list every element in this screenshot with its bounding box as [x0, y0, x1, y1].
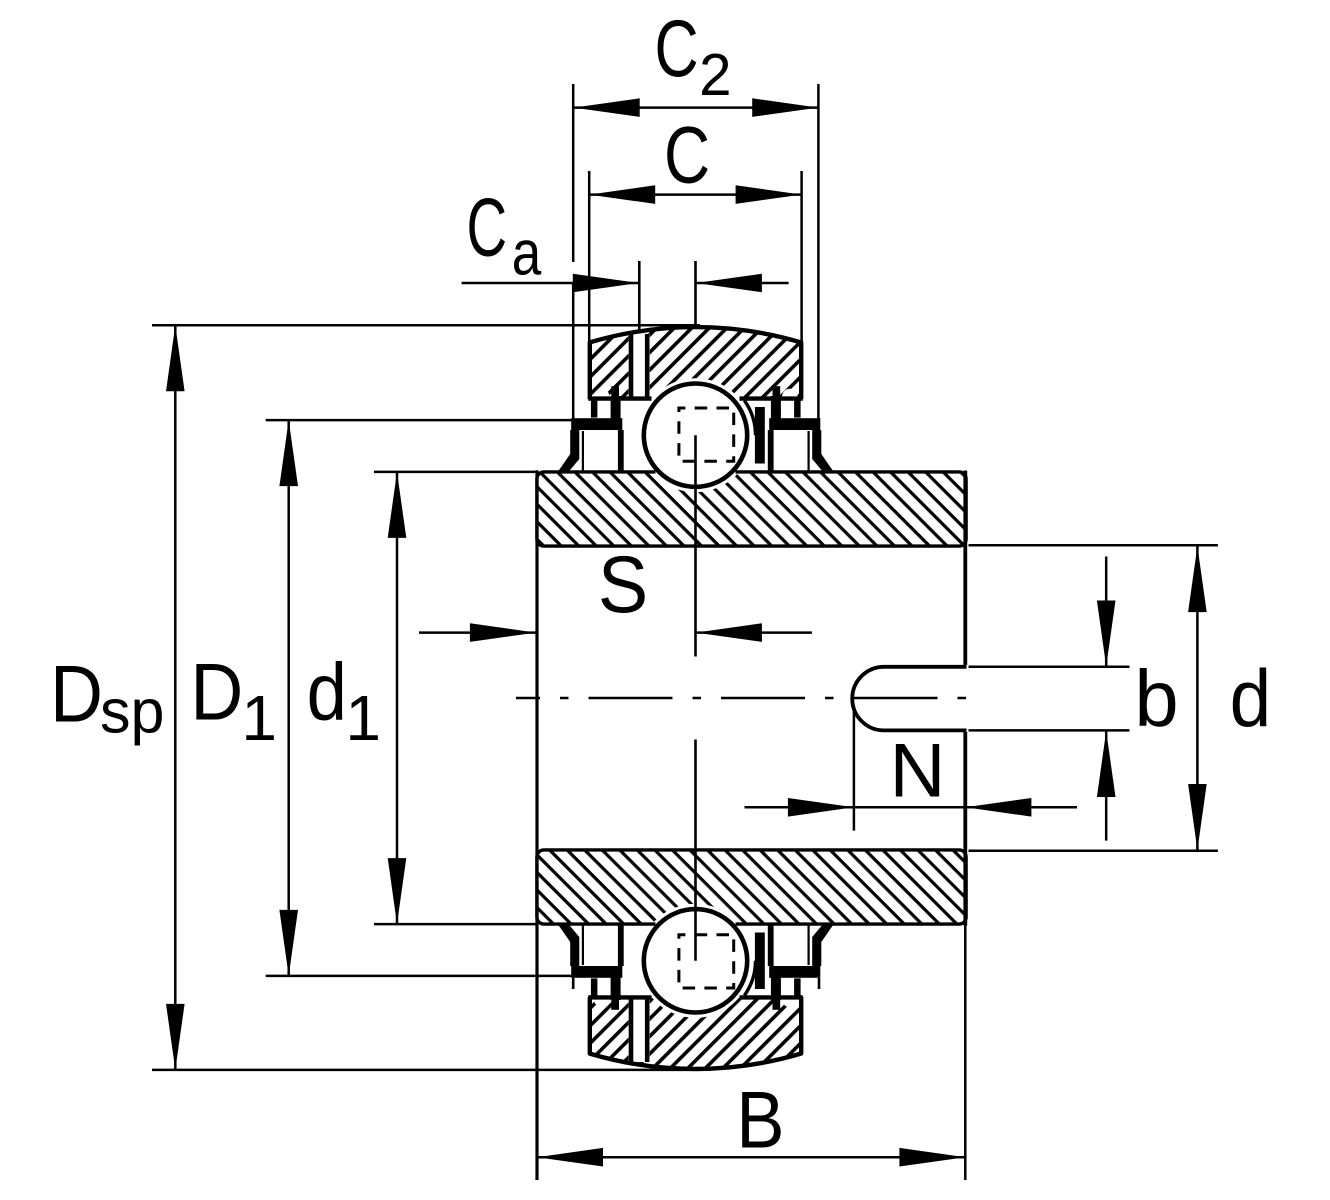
outer ring bottom lubrication groove lines	[631, 997, 647, 1062]
seal top-right	[768, 386, 834, 472]
svg-text:2: 2	[699, 41, 731, 108]
svg-text:D: D	[50, 649, 103, 739]
white gap where balls cross band edges	[656, 468, 736, 477]
Ca groove extension line	[638, 261, 641, 332]
svg-text:S: S	[598, 540, 648, 630]
seal bottom-right flinger cavity edge	[807, 925, 809, 965]
inner ring left face / B extension line	[535, 470, 538, 1180]
dimension B line	[537, 1148, 965, 1167]
inner ring right raceway arc (bottom)	[744, 961, 755, 996]
seal top-right flinger cavity edge	[807, 431, 809, 471]
svg-text:C: C	[467, 180, 508, 273]
svg-text:D: D	[190, 648, 243, 738]
N extension line	[853, 706, 856, 831]
dimension d line	[1188, 546, 1207, 850]
inner ring right face	[963, 471, 967, 926]
inner ring bottom band hatching	[535, 848, 968, 926]
ball bottom	[644, 909, 747, 1012]
inner ring bottom band outline	[537, 850, 966, 924]
dimension D1 line	[279, 420, 298, 976]
label d1	[307, 648, 381, 754]
seal top-left	[558, 386, 624, 472]
dimension C2 line	[574, 98, 819, 117]
ball centre plane line segments	[694, 261, 697, 961]
outer ring bottom top face	[588, 995, 803, 999]
outer ring top section outline	[590, 327, 801, 399]
shaft centreline	[516, 697, 982, 700]
dimension Dsp line	[166, 325, 185, 1070]
inner ring top band outline	[537, 472, 966, 546]
label D1	[190, 648, 277, 754]
ball bottom max-size dashed square	[679, 935, 734, 988]
dimension b line	[1097, 557, 1116, 841]
svg-text:B: B	[736, 1076, 784, 1166]
d extension lines	[969, 545, 1218, 850]
svg-text:d: d	[307, 648, 347, 738]
slot projection extension lines (b)	[969, 667, 1130, 731]
outer ring top section hatching	[560, 315, 830, 400]
svg-text:d: d	[1230, 654, 1272, 744]
flinger bottom edge stubs	[573, 978, 819, 989]
outer ring top lubrication groove lines	[631, 334, 647, 399]
C2 extension lines	[573, 84, 818, 419]
svg-text:1: 1	[345, 682, 381, 754]
seal top-left flinger cavity edge	[582, 431, 584, 471]
svg-text:N: N	[890, 728, 946, 813]
svg-text:C: C	[664, 110, 710, 200]
ball top max-size dashed square	[679, 408, 734, 461]
inner ring right raceway arc (top)	[744, 401, 755, 436]
outer ring bottom section hatching	[560, 998, 830, 1077]
label Ca	[467, 180, 543, 288]
svg-text:sp: sp	[100, 678, 165, 747]
inner ring right shoulder edge (top)	[755, 407, 765, 464]
outer ring bottom section outline	[590, 997, 801, 1069]
label Dsp	[50, 649, 164, 746]
inner ring right shoulder edge (bottom)	[755, 933, 765, 990]
dimension S line	[419, 623, 812, 642]
svg-text:C: C	[655, 4, 699, 94]
dimension N line	[745, 798, 1078, 817]
svg-text:b: b	[1134, 654, 1178, 743]
Dsp extension lines	[152, 325, 700, 1070]
label C2	[655, 4, 732, 108]
seal bottom-left	[558, 924, 624, 1010]
inner ring top band hatching	[535, 470, 968, 548]
C extension lines	[589, 171, 801, 345]
svg-text:1: 1	[241, 682, 277, 754]
dimension C line	[589, 185, 801, 204]
dimension Ca line	[462, 274, 789, 293]
drive slot in inner ring right face	[852, 667, 966, 731]
D1 extension lines	[266, 420, 572, 976]
d1 extension lines	[374, 472, 536, 924]
B right extension line	[964, 926, 967, 1181]
svg-text:a: a	[512, 219, 542, 289]
dimension d1 line	[388, 472, 407, 924]
ball top	[644, 384, 747, 487]
seal bottom-right	[768, 924, 834, 1010]
outer ring top bottom face	[588, 396, 803, 400]
seal bottom-left flinger cavity edge	[582, 925, 584, 965]
